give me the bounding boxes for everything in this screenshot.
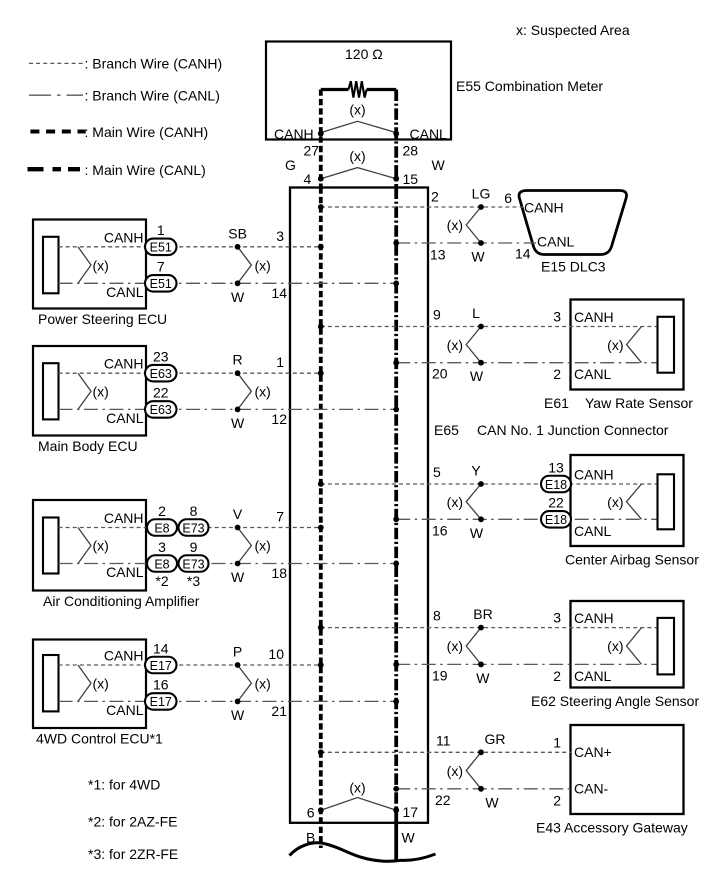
svg-text:CANL: CANL (106, 284, 144, 300)
svg-text:12: 12 (271, 411, 287, 427)
E62 CANH label (574, 610, 614, 626)
4WD Control ECU CANL label (106, 702, 144, 718)
legend label main wire CANH (85, 124, 209, 140)
wire branch CANH left trunk to Center Airbag Sensor (321, 483, 657, 485)
svg-text:W: W (476, 670, 490, 686)
svg-text:6: 6 (307, 805, 315, 821)
suspect marker (x) inside Air Conditioning Amplifier (78, 528, 109, 564)
svg-text:20: 20 (432, 366, 448, 382)
suspect marker (x) meter internal (321, 102, 396, 133)
svg-text:3: 3 (553, 309, 561, 325)
node junction pin 4 (304, 171, 324, 187)
junction pin 7 CANH (276, 509, 284, 525)
svg-text:: Main Wire (CANL): : Main Wire (CANL) (85, 162, 206, 178)
svg-text:(x): (x) (255, 538, 271, 554)
svg-text:3: 3 (158, 539, 166, 555)
svg-text:14: 14 (153, 640, 169, 656)
junction pin 21 CANL (271, 703, 287, 719)
svg-text:Air Conditioning Amplifier: Air Conditioning Amplifier (43, 593, 200, 609)
suspect marker (x) E62 branch pair (447, 628, 481, 665)
Power Steering ECU connector pins (43, 237, 59, 293)
legend sample branch wire CANL (29, 94, 83, 96)
connector code E8 on Air Conditioning Amplifier CANL wire pin 3 (147, 539, 177, 572)
wire color W Main Body ECU CANL (231, 415, 245, 431)
svg-text:21: 21 (271, 703, 287, 719)
4WD Control ECU connector pins (43, 655, 59, 711)
svg-text:(x): (x) (447, 638, 463, 654)
node right trunk dot 4WD Control ECU CANL (393, 699, 399, 705)
svg-text:: Branch Wire (CANL): : Branch Wire (CANL) (85, 88, 220, 104)
svg-text:CANL: CANL (106, 410, 144, 426)
E61 connector pins (658, 317, 675, 373)
node Center Airbag Sensor CANL branch dot (478, 516, 484, 522)
label E43 Accessory Gateway (536, 820, 688, 836)
suspect marker (x) 4WD Control ECU branch pair (238, 665, 271, 701)
connector code E73 on Air Conditioning Amplifier CANL wire pin 9 (179, 539, 209, 572)
svg-text:CANL: CANL (106, 564, 144, 580)
svg-text:13: 13 (548, 459, 564, 475)
svg-text:W: W (432, 157, 446, 173)
node left trunk dot E61 CANH (318, 324, 324, 330)
4WD Control ECU CANH label (104, 648, 144, 664)
svg-text:(x): (x) (93, 538, 109, 554)
svg-text:(x): (x) (93, 257, 109, 273)
wire branch CANH left trunk to E61 (321, 326, 657, 328)
wire color W E43 CANL (485, 794, 499, 810)
svg-text:E17: E17 (150, 695, 172, 709)
E62 CANL label (574, 668, 612, 684)
junction pin 10 CANH (268, 646, 284, 662)
svg-text:2: 2 (553, 668, 561, 684)
E61 pin 2 CANL (553, 366, 561, 382)
Power Steering ECU CANL label (106, 284, 144, 300)
svg-text:V: V (233, 506, 243, 522)
svg-text:CANH: CANH (104, 648, 144, 664)
svg-text:22: 22 (435, 792, 451, 808)
node 4WD Control ECU CANH branch dot (235, 662, 241, 668)
svg-text:*3: *3 (187, 573, 200, 589)
svg-text:16: 16 (432, 522, 448, 538)
node left trunk dot Center Airbag Sensor CANH (318, 481, 324, 487)
wire color GR E43 CANH (485, 731, 506, 747)
wire meter CANL drop pin 28 (394, 90, 398, 188)
wire branch CANL 4WD Control ECU to right trunk (59, 700, 397, 702)
label Center Airbag Sensor (565, 552, 699, 568)
svg-text:CANL: CANL (574, 523, 612, 539)
svg-text:CAN+: CAN+ (574, 744, 612, 760)
Power Steering ECU box (33, 220, 146, 309)
wire color LG DLC3 CANH (472, 186, 491, 202)
svg-text:120 Ω: 120 Ω (345, 46, 383, 62)
suspect marker (x) Power Steering ECU branch pair (238, 247, 271, 283)
label E62 Steering Angle Sensor (531, 693, 699, 709)
svg-text:14: 14 (515, 246, 531, 262)
DLC3 pin 14 CANL (515, 246, 531, 262)
svg-text:19: 19 (432, 667, 448, 683)
node E43 CANH branch dot (478, 749, 484, 755)
svg-text:E17: E17 (150, 659, 172, 673)
svg-text:SB: SB (228, 225, 247, 241)
junction pin 14 CANL (271, 285, 287, 301)
svg-text:E62 Steering Angle Sensor: E62 Steering Angle Sensor (531, 693, 699, 709)
node meter CANL pin 28 (393, 126, 447, 159)
svg-text:(x): (x) (607, 337, 623, 353)
svg-text:8: 8 (190, 503, 198, 519)
svg-text:(x): (x) (93, 384, 109, 400)
node Main Body ECU CANH branch dot (235, 370, 241, 376)
svg-text:13: 13 (430, 247, 446, 263)
DLC3 pin 6 CANH (504, 190, 512, 206)
svg-text:(x): (x) (607, 638, 623, 654)
svg-text:27: 27 (304, 143, 320, 159)
label E55 Combination Meter (456, 78, 603, 94)
label Yaw Rate Sensor (544, 395, 693, 411)
svg-text:Y: Y (471, 463, 481, 479)
node junction pin 15 (393, 171, 418, 187)
svg-text:L: L (472, 305, 480, 321)
svg-text:4WD Control ECU*1: 4WD Control ECU*1 (36, 731, 163, 747)
svg-text:CAN No. 1 Junction Connector: CAN No. 1 Junction Connector (477, 422, 669, 438)
Air Conditioning Amplifier CANH label (104, 510, 144, 526)
svg-text:*2: *2 (155, 573, 168, 589)
legend sample main wire CANH (30, 130, 85, 134)
svg-text:Yaw Rate Sensor: Yaw Rate Sensor (585, 395, 693, 411)
svg-text:E18: E18 (545, 513, 567, 527)
svg-text:7: 7 (276, 509, 284, 525)
svg-text:1: 1 (276, 354, 284, 370)
node left trunk dot E62 CANH (318, 625, 324, 631)
wire branch CANL Air Conditioning Amplifier to right trunk (59, 563, 397, 565)
legend label branch wire CANH (85, 56, 223, 72)
wire color W 4WD Control ECU CANL (231, 707, 245, 723)
junction pin 20 CANL (432, 366, 448, 382)
wire color L E61 CANH (472, 305, 480, 321)
svg-text:(x): (x) (349, 780, 365, 796)
Center Airbag Sensor CANL label (574, 523, 612, 539)
svg-text:1: 1 (553, 734, 561, 750)
Power Steering ECU CANH label (104, 229, 144, 245)
Main Body ECU connector pins (43, 363, 59, 419)
node E61 CANH branch dot (478, 324, 484, 330)
E43 pin 1 CANH (553, 734, 561, 750)
suspect marker (x) DLC3 branch pair (447, 207, 481, 243)
wire color W E62 CANL (476, 670, 490, 686)
wire color W Power Steering ECU CANL (231, 289, 245, 305)
junction pin 9 CANH (433, 307, 441, 323)
svg-text:CANH: CANH (574, 467, 614, 483)
wire color W Center Airbag Sensor CANL (470, 525, 484, 541)
node left trunk dot Power Steering ECU CANH (318, 244, 324, 250)
wire color P 4WD Control ECU CANH (233, 644, 242, 660)
node right trunk dot E61 CANL (393, 360, 399, 366)
wire color R Main Body ECU CANH (233, 352, 243, 368)
node junction pin 17 bottom CANL (393, 804, 418, 820)
junction pin 1 CANH (276, 354, 284, 370)
suspect marker (x) inside Power Steering ECU (78, 247, 109, 283)
svg-text:(x): (x) (93, 675, 109, 691)
4WD Control ECU box (33, 640, 146, 729)
suspect marker (x) Main Body ECU branch pair (238, 373, 271, 409)
wire branch CANL Main Body ECU to right trunk (59, 408, 397, 410)
svg-text:(x): (x) (447, 337, 463, 353)
label 4WD Control ECU (36, 731, 163, 747)
node Air Conditioning Amplifier CANH branch dot (235, 525, 241, 531)
svg-text:E73: E73 (182, 557, 204, 571)
connector code E63 on Main Body ECU CANH wire pin 23 (145, 349, 177, 382)
node right trunk dot Air Conditioning Amplifier CANL (393, 561, 399, 567)
svg-text:E51: E51 (150, 241, 172, 255)
label Air Conditioning Amplifier (43, 593, 200, 609)
svg-text:3: 3 (276, 228, 284, 244)
svg-text:E63: E63 (150, 403, 172, 417)
junction pin 5 CANH (433, 464, 441, 480)
svg-text:(x): (x) (255, 384, 271, 400)
svg-text:(x): (x) (349, 148, 365, 164)
label Power Steering ECU (38, 311, 167, 327)
wire branch CANL right trunk to DLC3 (396, 242, 536, 244)
svg-text:*2: for 2AZ-FE: *2: for 2AZ-FE (88, 814, 177, 830)
connector code E51 on Power Steering ECU CANH wire pin 1 (145, 222, 177, 255)
svg-text:6: 6 (504, 190, 512, 206)
node left trunk dot DLC3 CANH (318, 204, 324, 210)
E62 pin 2 CANL (553, 668, 561, 684)
svg-text:P: P (233, 644, 242, 660)
svg-text:3: 3 (553, 610, 561, 626)
suspect marker (x) Center Airbag Sensor branch pair (447, 484, 481, 519)
svg-text:(x): (x) (255, 675, 271, 691)
junction pin 19 CANL (432, 667, 448, 683)
wire color V Air Conditioning Amplifier CANH (233, 506, 243, 522)
suspect marker (x) junction bottom pair (321, 780, 396, 811)
Center Airbag Sensor box (571, 455, 684, 546)
main wire CANL right trunk (394, 188, 398, 862)
connector code E17 on 4WD Control ECU CANL wire pin 16 (145, 677, 177, 710)
svg-text:2: 2 (553, 792, 561, 808)
svg-text:8: 8 (433, 608, 441, 624)
junction pin 13 CANL (430, 247, 446, 263)
wire continuation break wave (290, 843, 436, 862)
svg-text:W: W (231, 289, 245, 305)
svg-text:28: 28 (403, 143, 419, 159)
svg-text:(x): (x) (255, 257, 271, 273)
svg-text:W: W (470, 525, 484, 541)
svg-text:1: 1 (157, 222, 165, 238)
resistor R terminating 120 ohm (321, 81, 396, 97)
svg-text:E65: E65 (434, 422, 459, 438)
svg-text:18: 18 (271, 565, 287, 581)
svg-text:2: 2 (158, 503, 166, 519)
E62 pin 3 CANH (553, 610, 561, 626)
svg-text:CANL: CANL (574, 366, 612, 382)
svg-text:W: W (231, 569, 245, 585)
svg-text:(x): (x) (447, 217, 463, 233)
svg-text:x: Suspected Area: x: Suspected Area (516, 22, 630, 38)
connector code E73 on Air Conditioning Amplifier CANH wire pin 8 (179, 503, 209, 536)
svg-text:E51: E51 (150, 277, 172, 291)
main wire CANH left trunk (319, 188, 323, 849)
junction pin 11 CANH (436, 732, 451, 748)
svg-text:(x): (x) (447, 494, 463, 510)
legend sample main wire CANL (28, 167, 81, 171)
connector code E17 on 4WD Control ECU CANH wire pin 14 (145, 640, 177, 673)
label E15 DLC3 (541, 259, 606, 275)
label E65 CAN No. 1 Junction Connector (434, 422, 669, 438)
svg-text:23: 23 (153, 349, 169, 365)
suspect marker (x) inside E62 (607, 628, 641, 665)
svg-text:14: 14 (271, 285, 287, 301)
node E62 CANH branch dot (478, 625, 484, 631)
svg-text:W: W (231, 707, 245, 723)
wire color B bottom CANH (306, 830, 315, 846)
svg-text:Main Body ECU: Main Body ECU (38, 438, 138, 454)
svg-text:*3: for 2ZR-FE: *3: for 2ZR-FE (88, 846, 178, 862)
Center Airbag Sensor CANH label (574, 467, 614, 483)
wire branch CANH left trunk to DLC3 (321, 206, 524, 208)
wire color W E61 CANL (470, 368, 484, 384)
suspect marker (x) Air Conditioning Amplifier branch pair (238, 528, 271, 564)
svg-text:W: W (402, 830, 416, 846)
connector code E63 on Main Body ECU CANL wire pin 22 (145, 385, 177, 418)
svg-text:9: 9 (190, 539, 198, 555)
E65 CAN No.1 Junction Connector box (290, 188, 428, 823)
connector code E51 on Power Steering ECU CANL wire pin 7 (145, 259, 177, 292)
Center Airbag Sensor connector pins (658, 474, 675, 529)
node right trunk dot E43 CANL (393, 786, 399, 792)
svg-text:E43 Accessory Gateway: E43 Accessory Gateway (536, 820, 688, 836)
svg-text:2: 2 (553, 366, 561, 382)
wire color W bottom CANL (402, 830, 416, 846)
E43 box (571, 725, 684, 814)
node right trunk dot DLC3 CANL (393, 240, 399, 246)
svg-text:(x): (x) (349, 102, 365, 118)
node left trunk dot Main Body ECU CANH (318, 370, 324, 376)
node right trunk dot Center Airbag Sensor CANL (393, 516, 399, 522)
node Air Conditioning Amplifier CANL branch dot (235, 561, 241, 567)
suspect marker (x) meter-to-junction (321, 148, 396, 179)
svg-text:16: 16 (153, 677, 169, 693)
E62 box (571, 601, 684, 688)
node right trunk dot E62 CANL (393, 662, 399, 668)
E43 CAN+ label (574, 744, 612, 760)
svg-text:CANH: CANH (104, 356, 144, 372)
E62 connector pins (658, 618, 675, 675)
svg-text:W: W (470, 368, 484, 384)
connector code E18 on Center Airbag Sensor CANL wire pin 22 (541, 495, 571, 528)
label Main Body ECU (38, 438, 138, 454)
E15 DLC3 connector shape (519, 191, 627, 255)
wire branch CANL right trunk to E62 (396, 663, 656, 665)
svg-text:E63: E63 (150, 367, 172, 381)
svg-text:E61: E61 (544, 395, 569, 411)
svg-text:(x): (x) (607, 494, 623, 510)
svg-text:(x): (x) (447, 763, 463, 779)
node Center Airbag Sensor CANH branch dot (478, 481, 484, 487)
svg-text:CAN-: CAN- (574, 780, 609, 796)
node right trunk dot Main Body ECU CANL (393, 407, 399, 413)
wire color Y Center Airbag Sensor CANH (471, 463, 481, 479)
wire branch CANH Power Steering ECU to left trunk (59, 246, 321, 248)
svg-text:7: 7 (157, 259, 165, 275)
node junction pin 6 bottom CANH (307, 805, 324, 821)
Air Conditioning Amplifier connector pins (43, 518, 59, 574)
svg-text:CANH: CANH (104, 229, 144, 245)
legend label branch wire CANL (85, 88, 220, 104)
svg-text:W: W (485, 794, 499, 810)
wire branch CANH 4WD Control ECU to left trunk (59, 664, 321, 666)
junction pin 3 CANH (276, 228, 284, 244)
node E43 CANL branch dot (478, 786, 484, 792)
svg-text:*1: for 4WD: *1: for 4WD (88, 777, 160, 793)
junction pin 8 CANH (433, 608, 441, 624)
node Power Steering ECU CANH branch dot (235, 244, 241, 250)
svg-text:LG: LG (472, 186, 491, 202)
footnote *2 for 2AZ-FE (88, 814, 177, 830)
wire branch CANL Power Steering ECU to right trunk (59, 282, 397, 284)
svg-text:E15 DLC3: E15 DLC3 (541, 259, 606, 275)
svg-text:E18: E18 (545, 478, 567, 492)
svg-text:15: 15 (403, 171, 419, 187)
wire branch CANH Air Conditioning Amplifier to left trunk (59, 527, 321, 529)
svg-text:: Branch Wire (CANH): : Branch Wire (CANH) (85, 56, 223, 72)
wire branch CANL right trunk to Center Airbag Sensor (396, 518, 656, 520)
svg-text:G: G (285, 157, 296, 173)
svg-text:CANH: CANH (574, 309, 614, 325)
svg-text:CANL: CANL (106, 702, 144, 718)
svg-text:E73: E73 (182, 521, 204, 535)
wire color W Air Conditioning Amplifier CANL (231, 569, 245, 585)
node DLC3 CANL branch dot (478, 240, 484, 246)
node E62 CANL branch dot (478, 662, 484, 668)
wire meter CANH drop pin 27 (319, 90, 323, 188)
svg-text:E8: E8 (154, 557, 169, 571)
wire color BR E62 CANH (473, 606, 492, 622)
node DLC3 CANH branch dot (478, 204, 484, 210)
junction pin 2 CANH (431, 189, 439, 205)
svg-text:E8: E8 (154, 521, 169, 535)
Air Conditioning Amplifier box (33, 500, 146, 591)
svg-text:W: W (471, 249, 485, 265)
DLC3 CANL label (537, 234, 575, 250)
legend label main wire CANL (85, 162, 206, 178)
node Power Steering ECU CANL branch dot (235, 280, 241, 286)
suspect marker (x) inside E61 (607, 327, 641, 363)
node left trunk dot E43 CANH (318, 749, 324, 755)
suspect marker (x) E61 branch pair (447, 327, 481, 363)
svg-text:CANH: CANH (274, 126, 314, 142)
footnote *1 for 4WD (88, 777, 160, 793)
svg-text:22: 22 (153, 385, 169, 401)
node E61 CANL branch dot (478, 360, 484, 366)
svg-text:CANL: CANL (410, 126, 448, 142)
svg-text:CANH: CANH (574, 610, 614, 626)
E61 CANL label (574, 366, 612, 382)
svg-text:10: 10 (268, 646, 284, 662)
svg-text:22: 22 (548, 495, 564, 511)
svg-text:: Main Wire (CANH): : Main Wire (CANH) (85, 124, 209, 140)
wire color W DLC3 CANL (471, 249, 485, 265)
suspect marker (x) inside 4WD Control ECU (78, 665, 109, 701)
wire branch CANH left trunk to E43 (321, 751, 571, 753)
svg-text:Center Airbag Sensor: Center Airbag Sensor (565, 552, 699, 568)
svg-text:R: R (233, 352, 243, 368)
suspect marker (x) inside Main Body ECU (78, 373, 109, 409)
Main Body ECU box (33, 346, 146, 436)
svg-text:5: 5 (433, 464, 441, 480)
E61 box (571, 300, 684, 390)
wire branch CANH left trunk to E62 (321, 627, 657, 629)
E55 Combination Meter box (266, 42, 451, 140)
suspect marker (x) inside Center Airbag Sensor (607, 484, 641, 519)
